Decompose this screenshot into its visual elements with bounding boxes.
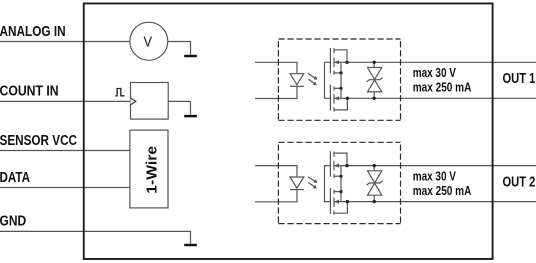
svg-text:ANALOG IN: ANALOG IN <box>0 22 66 39</box>
svg-text:GND: GND <box>0 212 26 229</box>
svg-text:SENSOR VCC: SENSOR VCC <box>0 132 77 149</box>
svg-text:DATA: DATA <box>0 168 30 185</box>
svg-text:1-Wire: 1-Wire <box>144 146 161 194</box>
svg-text:OUT 1: OUT 1 <box>503 70 536 87</box>
svg-text:OUT 2: OUT 2 <box>503 173 536 190</box>
svg-text:max 30 V: max 30 V <box>413 67 456 80</box>
svg-text:COUNT IN: COUNT IN <box>0 82 59 98</box>
svg-text:V: V <box>144 33 153 50</box>
svg-text:max 250 mA: max 250 mA <box>413 81 472 96</box>
